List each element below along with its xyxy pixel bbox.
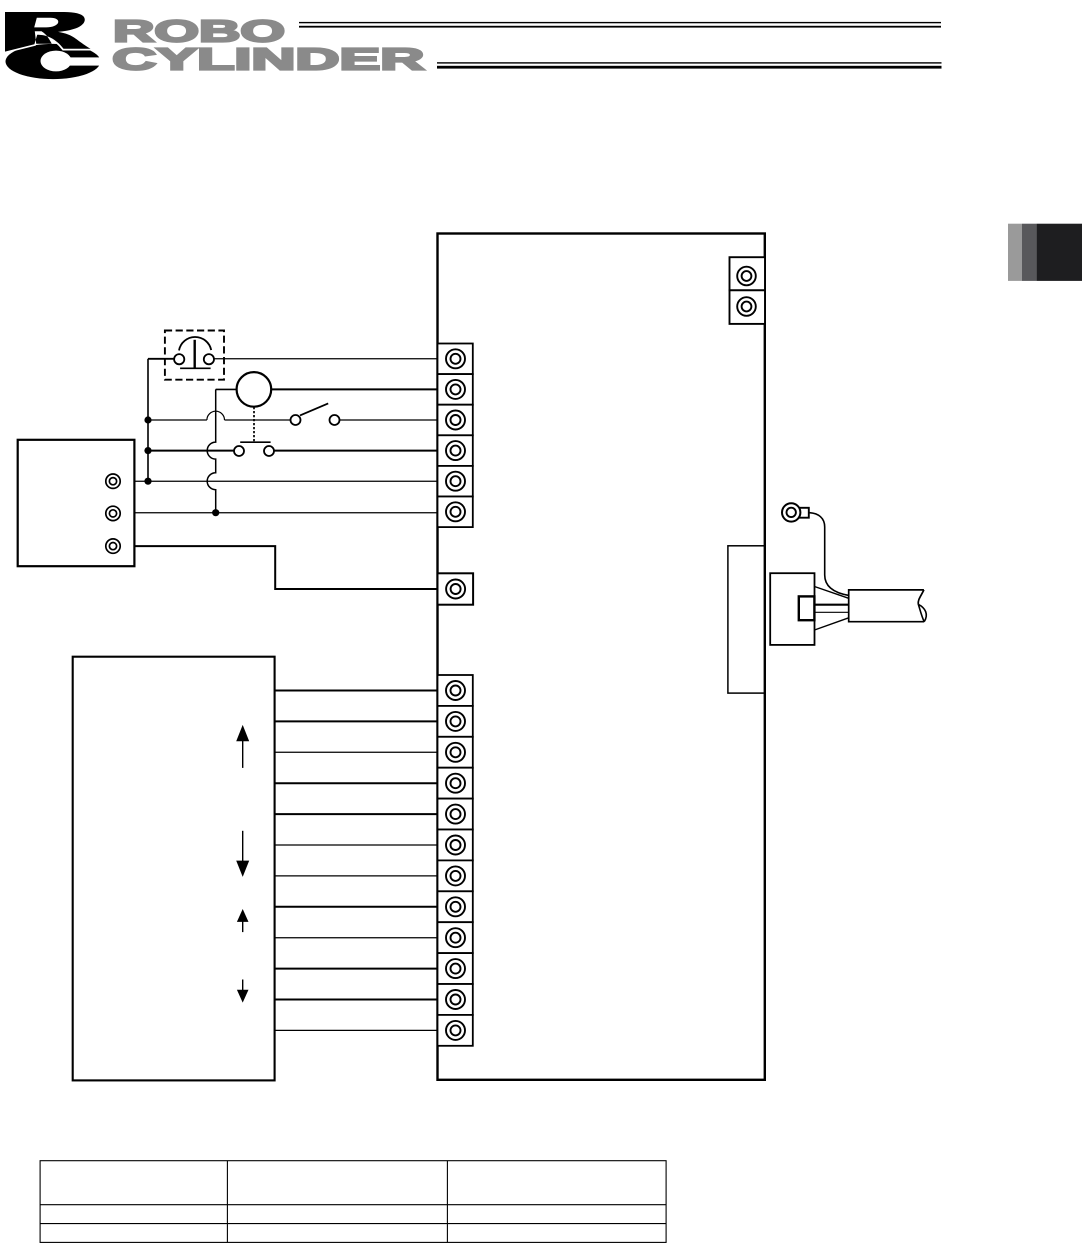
ground ring terminal bbox=[782, 503, 809, 521]
wire: power box L to terminal 5 bbox=[134, 480, 437, 482]
wire: power box N to terminal 6 bbox=[134, 512, 437, 514]
harness thin wire bbox=[815, 611, 849, 613]
motor cable torn end bbox=[918, 590, 924, 604]
TB3 terminal screw 1 bbox=[737, 267, 756, 286]
switch contact terminals bbox=[291, 415, 301, 425]
harness lower diagonal bbox=[815, 618, 849, 630]
header double rule bottom bbox=[437, 62, 942, 63]
ground wire from ring terminal to cable bbox=[810, 513, 849, 596]
wire: switch right to terminal 3 bbox=[339, 419, 437, 421]
mechanical link dotted bbox=[253, 407, 255, 442]
wire: row3 to switch bbox=[225, 419, 291, 421]
relay contact bar bbox=[240, 441, 270, 443]
wire PLC row9 bbox=[275, 937, 438, 939]
wire PLC row7 bbox=[275, 875, 438, 877]
specification table bbox=[40, 1161, 666, 1243]
motor cable sheath bbox=[849, 590, 925, 622]
wire: power box PE to ground terminal bbox=[134, 546, 437, 589]
wire: row3 left segment bbox=[148, 419, 207, 421]
harness upper diagonal bbox=[815, 587, 849, 599]
emergency stop dashed enclosure bbox=[165, 331, 224, 380]
wire PLC row12 bbox=[275, 1029, 438, 1031]
wire: row4 right to terminal 4 bbox=[274, 450, 437, 452]
wire PLC row5 bbox=[275, 813, 438, 815]
junction dot bus/row3 bbox=[144, 416, 151, 423]
wire PLC row3 bbox=[275, 751, 438, 753]
terminal block TB1 (6 cells) bbox=[438, 344, 473, 528]
relay coil CR bbox=[237, 372, 272, 407]
arrow up long bbox=[236, 725, 249, 768]
junction dot coil drop/row6 bbox=[212, 509, 219, 516]
emergency stop pushbutton: mushroom cap arc bbox=[179, 337, 211, 350]
ground terminal (single cell) bbox=[438, 573, 474, 604]
wire: emergency stop left to bus bbox=[148, 358, 174, 360]
TB1 screws bbox=[446, 349, 465, 521]
wire: coil left stub bbox=[216, 388, 237, 390]
header double rule top bbox=[299, 22, 941, 23]
emergency stop actuator stem bbox=[193, 340, 195, 369]
logo R glyph bbox=[5, 12, 91, 52]
relay contact CR terminals bbox=[234, 446, 244, 456]
wire: left bus vertical bbox=[147, 359, 149, 481]
wire hop row3 over coil drop bbox=[207, 411, 225, 420]
wire PLC row2 bbox=[275, 720, 438, 722]
wire PLC row4 bbox=[275, 782, 438, 784]
arrow down short bbox=[237, 980, 249, 1003]
TB3 terminal screw 2 bbox=[737, 297, 756, 316]
terminal block TB3 (upper right, 2 cells) bbox=[730, 257, 766, 324]
PLC box (lower left) bbox=[73, 657, 275, 1081]
emergency stop NC contact bar bbox=[180, 367, 211, 369]
controller box bbox=[438, 234, 765, 1080]
junction dot bus/row5 bbox=[144, 478, 151, 485]
emergency stop contact terminals bbox=[174, 354, 184, 364]
wire PLC row10 bbox=[275, 968, 438, 970]
junction dot bus/row4 bbox=[144, 447, 151, 454]
arrow down long bbox=[236, 831, 249, 877]
wire: coil right to terminal 2 bbox=[271, 388, 437, 390]
wire PLC row11 bbox=[275, 999, 438, 1001]
motor connector panel cutout bbox=[728, 546, 765, 693]
power supply terminals bbox=[106, 474, 120, 553]
connector notch bbox=[799, 596, 815, 620]
logo C glyph bbox=[6, 44, 103, 79]
wire PLC row8 bbox=[275, 906, 438, 908]
wire: row4 left segment bbox=[148, 450, 234, 452]
motor connector housing bbox=[770, 573, 814, 645]
arrow up short bbox=[237, 909, 249, 932]
svg-text:CYLINDER: CYLINDER bbox=[112, 43, 424, 77]
wire: coil drop vertical with hops bbox=[207, 389, 216, 512]
wire: emergency stop right to terminal 1 bbox=[214, 358, 438, 360]
wire PLC row6 bbox=[275, 844, 438, 846]
switch blade bbox=[300, 403, 328, 415]
terminal block TB2 (12 cells) bbox=[438, 675, 473, 1046]
wire PLC row1 bbox=[275, 690, 438, 692]
page edge section tab bbox=[1008, 224, 1082, 281]
TB2 screws bbox=[446, 681, 465, 1040]
power supply box (left) bbox=[18, 440, 135, 566]
harness thick wire bbox=[815, 604, 849, 606]
